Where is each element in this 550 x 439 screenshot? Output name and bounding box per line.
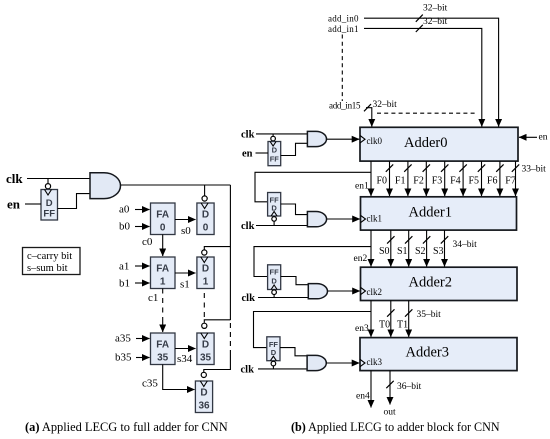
wire en to DFF0 <box>256 152 269 154</box>
wire c1 dashed FA1 to FA35 <box>162 289 164 319</box>
clock triangle DFF2 <box>271 285 277 290</box>
wire F3 <box>444 161 446 196</box>
bubble D36 clock <box>201 372 206 377</box>
flip-flop D35 <box>197 333 214 365</box>
svg-text:F6: F6 <box>487 176 498 187</box>
wire T1 <box>408 301 410 337</box>
arrow a35 <box>136 338 150 340</box>
svg-text:s1: s1 <box>180 279 190 291</box>
arrow a0 <box>135 209 150 211</box>
svg-text:add_in0: add_in0 <box>328 14 359 24</box>
wire out <box>389 371 391 405</box>
wire AND output clock line (a) <box>121 184 231 186</box>
clock triangle Adder1 <box>361 215 366 222</box>
svg-text:36: 36 <box>198 401 210 412</box>
bubble DFF2 clock <box>272 290 277 295</box>
svg-text:Adder1: Adder1 <box>409 205 453 221</box>
bubble D0 clock <box>202 196 207 201</box>
adder block Adder0 <box>360 127 518 161</box>
slash add_in0 <box>416 15 423 22</box>
bubble DFF clock (a) <box>45 184 50 189</box>
svg-text:en3: en3 <box>355 324 369 334</box>
svg-text:FA: FA <box>156 264 169 275</box>
svg-text:en4: en4 <box>356 392 370 402</box>
wire F0 <box>389 161 391 196</box>
svg-text:F0: F0 <box>377 176 388 187</box>
wire clk1 <box>256 225 307 227</box>
arrow en into Adder0 <box>519 136 537 138</box>
wire clk3 <box>258 368 307 370</box>
wire S1 <box>408 230 410 266</box>
slash S0 <box>387 236 394 243</box>
svg-text:D: D <box>271 277 277 286</box>
svg-text:Adder2: Adder2 <box>409 275 453 291</box>
svg-text:D: D <box>272 146 278 155</box>
arrow FA1 to D1 <box>175 272 196 274</box>
svg-text:Adder0: Adder0 <box>404 135 448 151</box>
svg-text:s0: s0 <box>181 225 191 237</box>
wire stub DFF1 bubble <box>273 221 275 225</box>
svg-text:clk1: clk1 <box>367 214 383 224</box>
slash T0 <box>387 309 394 316</box>
bubble D35 clock <box>202 323 207 328</box>
svg-text:s34: s34 <box>177 353 193 365</box>
legend box <box>23 248 81 275</box>
AND gate U1 (a) <box>90 173 121 199</box>
svg-text:FF: FF <box>270 268 280 277</box>
wire stub DFF3 bubble <box>272 366 274 369</box>
slash F2 <box>423 164 430 171</box>
AND gate G2 <box>308 284 327 299</box>
slash add_in1 <box>416 25 423 32</box>
wire T0 <box>390 301 392 337</box>
wire en3 <box>370 301 372 337</box>
wire S3 <box>444 230 446 266</box>
svg-text:T1: T1 <box>397 320 408 331</box>
wire DFF3 out to AND3 <box>280 348 307 356</box>
wire en2 branch to FF2 <box>254 247 371 277</box>
slash F5 <box>478 164 485 171</box>
arrow FA0 to D0 <box>175 219 196 221</box>
adder block Adder1 <box>361 197 517 230</box>
wire F5 <box>481 161 483 196</box>
bubble DFF0 clock <box>271 136 276 141</box>
slash F4 <box>459 164 466 171</box>
svg-text:clk: clk <box>241 221 255 232</box>
svg-text:F4: F4 <box>450 176 461 187</box>
wire add_in15 <box>366 108 372 127</box>
flip-flop DFF (a) <box>41 190 58 221</box>
AND gate G0 <box>307 131 326 146</box>
slash S1 <box>405 236 412 243</box>
wire S0 <box>390 230 392 266</box>
clock triangle Adder3 <box>360 359 365 366</box>
bubble D1 clock <box>202 250 207 255</box>
wire AND1 to Adder1 <box>327 218 360 220</box>
slash S3 <box>441 236 448 243</box>
svg-text:clk: clk <box>241 364 255 375</box>
svg-text:1: 1 <box>203 277 209 288</box>
flip-flop D36 <box>195 381 212 413</box>
wire AND3 to Adder3 <box>326 362 359 364</box>
svg-text:c35: c35 <box>142 378 158 390</box>
wire en2 <box>370 230 372 266</box>
svg-text:33–bit: 33–bit <box>522 165 547 175</box>
svg-text:0: 0 <box>203 223 209 234</box>
svg-text:S2: S2 <box>415 246 426 257</box>
svg-text:clk: clk <box>6 171 23 186</box>
dashed wire add_in15 bus <box>377 112 477 114</box>
wire en to DFF (a) <box>25 203 41 205</box>
svg-text:a0: a0 <box>119 204 130 216</box>
slash F3 <box>441 164 448 171</box>
wire en4 <box>370 371 372 408</box>
wire DFF2 out to AND2 <box>281 277 309 285</box>
svg-text:D: D <box>202 340 209 351</box>
svg-text:a1: a1 <box>119 261 129 273</box>
wire branch to D35 clock <box>204 320 230 323</box>
wire c35 FA35 to D36 <box>163 365 195 390</box>
slash out <box>386 381 393 388</box>
svg-text:35: 35 <box>200 353 212 364</box>
svg-text:clk0: clk0 <box>367 136 383 146</box>
svg-text:c0: c0 <box>142 236 153 248</box>
bubble DFF1 clock <box>272 217 277 222</box>
clock triangle Adder0 <box>360 136 365 143</box>
svg-text:c–carry bit: c–carry bit <box>27 251 72 262</box>
svg-text:D: D <box>200 388 207 399</box>
svg-text:add_in15: add_in15 <box>329 101 361 111</box>
arrow c1 head <box>162 318 164 332</box>
svg-text:34–bit: 34–bit <box>453 240 478 250</box>
svg-text:a35: a35 <box>115 333 131 345</box>
flip-flop DFF1 <box>268 193 281 217</box>
svg-text:F3: F3 <box>432 176 443 187</box>
wire clk stub to DFF bubble (a) <box>47 179 49 184</box>
wire clock vertical (a) <box>229 185 231 320</box>
svg-text:FA: FA <box>156 340 169 351</box>
dashed wire below D1 <box>203 293 205 319</box>
svg-text:32–bit: 32–bit <box>423 17 448 27</box>
svg-text:FF: FF <box>43 209 55 220</box>
svg-text:S3: S3 <box>433 246 444 257</box>
wire stub to D0 clock <box>204 185 206 196</box>
wire clock to D36 (a) <box>204 350 231 372</box>
arrow b1 <box>135 282 150 284</box>
wire c0 FA0 to FA1 <box>162 235 164 257</box>
svg-text:F1: F1 <box>395 176 406 187</box>
arrow b35 <box>136 357 150 359</box>
svg-text:add_in1: add_in1 <box>328 24 359 34</box>
svg-text:35: 35 <box>157 353 169 364</box>
svg-text:Adder3: Adder3 <box>406 345 450 361</box>
svg-text:out: out <box>384 408 397 418</box>
AND gate G1 <box>307 212 326 227</box>
wire add_in1 <box>364 28 482 126</box>
wire clk (a) <box>27 178 90 180</box>
svg-text:32–bit: 32–bit <box>423 4 448 14</box>
clock triangle Adder2 <box>361 287 366 294</box>
svg-text:0: 0 <box>160 223 166 234</box>
arrow a1 <box>135 265 150 267</box>
svg-text:35–bit: 35–bit <box>417 310 442 320</box>
svg-text:c1: c1 <box>148 292 158 304</box>
svg-text:en: en <box>242 149 253 160</box>
svg-text:1: 1 <box>160 277 166 288</box>
svg-text:b35: b35 <box>115 352 132 364</box>
flip-flop DFF3 <box>267 337 280 361</box>
wire AND2 to Adder2 <box>327 290 359 292</box>
svg-text:FF: FF <box>270 155 280 164</box>
wire clk2 <box>258 297 308 299</box>
svg-text:S0: S0 <box>379 246 390 257</box>
svg-text:clk: clk <box>241 130 255 141</box>
svg-text:FA: FA <box>156 210 169 221</box>
svg-text:(a) Applied LECG to full adder: (a) Applied LECG to full adder for CNN <box>25 420 228 434</box>
adder block Adder2 <box>361 267 518 300</box>
svg-text:36–bit: 36–bit <box>397 382 422 392</box>
svg-text:clk2: clk2 <box>367 287 383 297</box>
slash F6 <box>496 164 503 171</box>
wire en3 branch to FF3 <box>254 312 372 348</box>
svg-text:32–bit: 32–bit <box>373 100 398 110</box>
dashed wire add_in1 to add_in15 <box>341 35 343 102</box>
arrow FA35 to D35 <box>175 348 196 350</box>
svg-text:F7: F7 <box>505 176 516 187</box>
wire DFF output to AND (a) <box>58 194 91 209</box>
svg-text:s–sum bit: s–sum bit <box>27 263 68 274</box>
wire F2 <box>425 161 427 196</box>
svg-text:D: D <box>202 264 209 275</box>
svg-text:F5: F5 <box>469 176 480 187</box>
wire en1 <box>370 161 372 196</box>
svg-text:en: en <box>7 197 21 212</box>
slash F0 <box>386 164 393 171</box>
wire stub to DFF0 bubble <box>272 134 274 136</box>
wire clk0 <box>256 133 307 135</box>
slash F7 <box>512 164 519 171</box>
wire F1 <box>407 161 409 196</box>
svg-text:(b) Applied LECG to adder bloc: (b) Applied LECG to adder block for CNN <box>291 420 500 434</box>
svg-text:S1: S1 <box>397 246 408 257</box>
svg-text:b1: b1 <box>119 278 130 290</box>
clock triangle DFF3 <box>270 356 276 361</box>
wire AND0 to Adder0 <box>327 138 360 140</box>
svg-text:clk: clk <box>242 293 256 304</box>
slash F1 <box>404 164 411 171</box>
wire clock vertical dashed segment (a) <box>229 323 231 350</box>
wire S2 <box>426 230 428 266</box>
wire DFF0 out to AND0 <box>281 143 308 155</box>
clock triangle DFF1 <box>271 212 277 217</box>
wire DFF1 out to AND1 <box>281 204 308 215</box>
full adder FA35 <box>151 333 176 365</box>
flip-flop DFF2 <box>268 265 281 290</box>
svg-text:en: en <box>539 132 548 142</box>
full adder FA1 <box>151 257 176 289</box>
bubble DFF3 clock <box>271 361 276 366</box>
full adder FA0 <box>151 203 176 235</box>
svg-text:F2: F2 <box>413 176 424 187</box>
svg-text:en1: en1 <box>355 182 369 192</box>
flip-flop DFF0 <box>268 142 281 166</box>
wire add_in0 <box>364 18 499 126</box>
slash S2 <box>423 236 430 243</box>
wire en1 branch to FF1 <box>255 172 371 202</box>
arrow b0 <box>135 226 150 228</box>
svg-text:en2: en2 <box>354 254 368 264</box>
svg-text:T0: T0 <box>379 320 390 331</box>
wire F4 <box>462 161 464 196</box>
svg-text:D: D <box>46 198 53 209</box>
adder block Adder3 <box>360 338 517 371</box>
slash T1 <box>405 309 412 316</box>
wire branch to D1 clock <box>204 247 230 250</box>
flip-flop D0 <box>197 203 214 235</box>
flip-flop D1 <box>197 257 214 289</box>
AND gate G3 <box>307 355 326 370</box>
wire F7 <box>515 161 517 196</box>
wire stub DFF2 bubble <box>273 295 275 298</box>
wire F6 <box>499 161 501 196</box>
svg-text:D: D <box>202 210 209 221</box>
svg-text:b0: b0 <box>119 221 131 233</box>
svg-text:clk3: clk3 <box>367 357 383 367</box>
slash add_in15 <box>364 104 371 111</box>
svg-text:D: D <box>271 348 277 357</box>
